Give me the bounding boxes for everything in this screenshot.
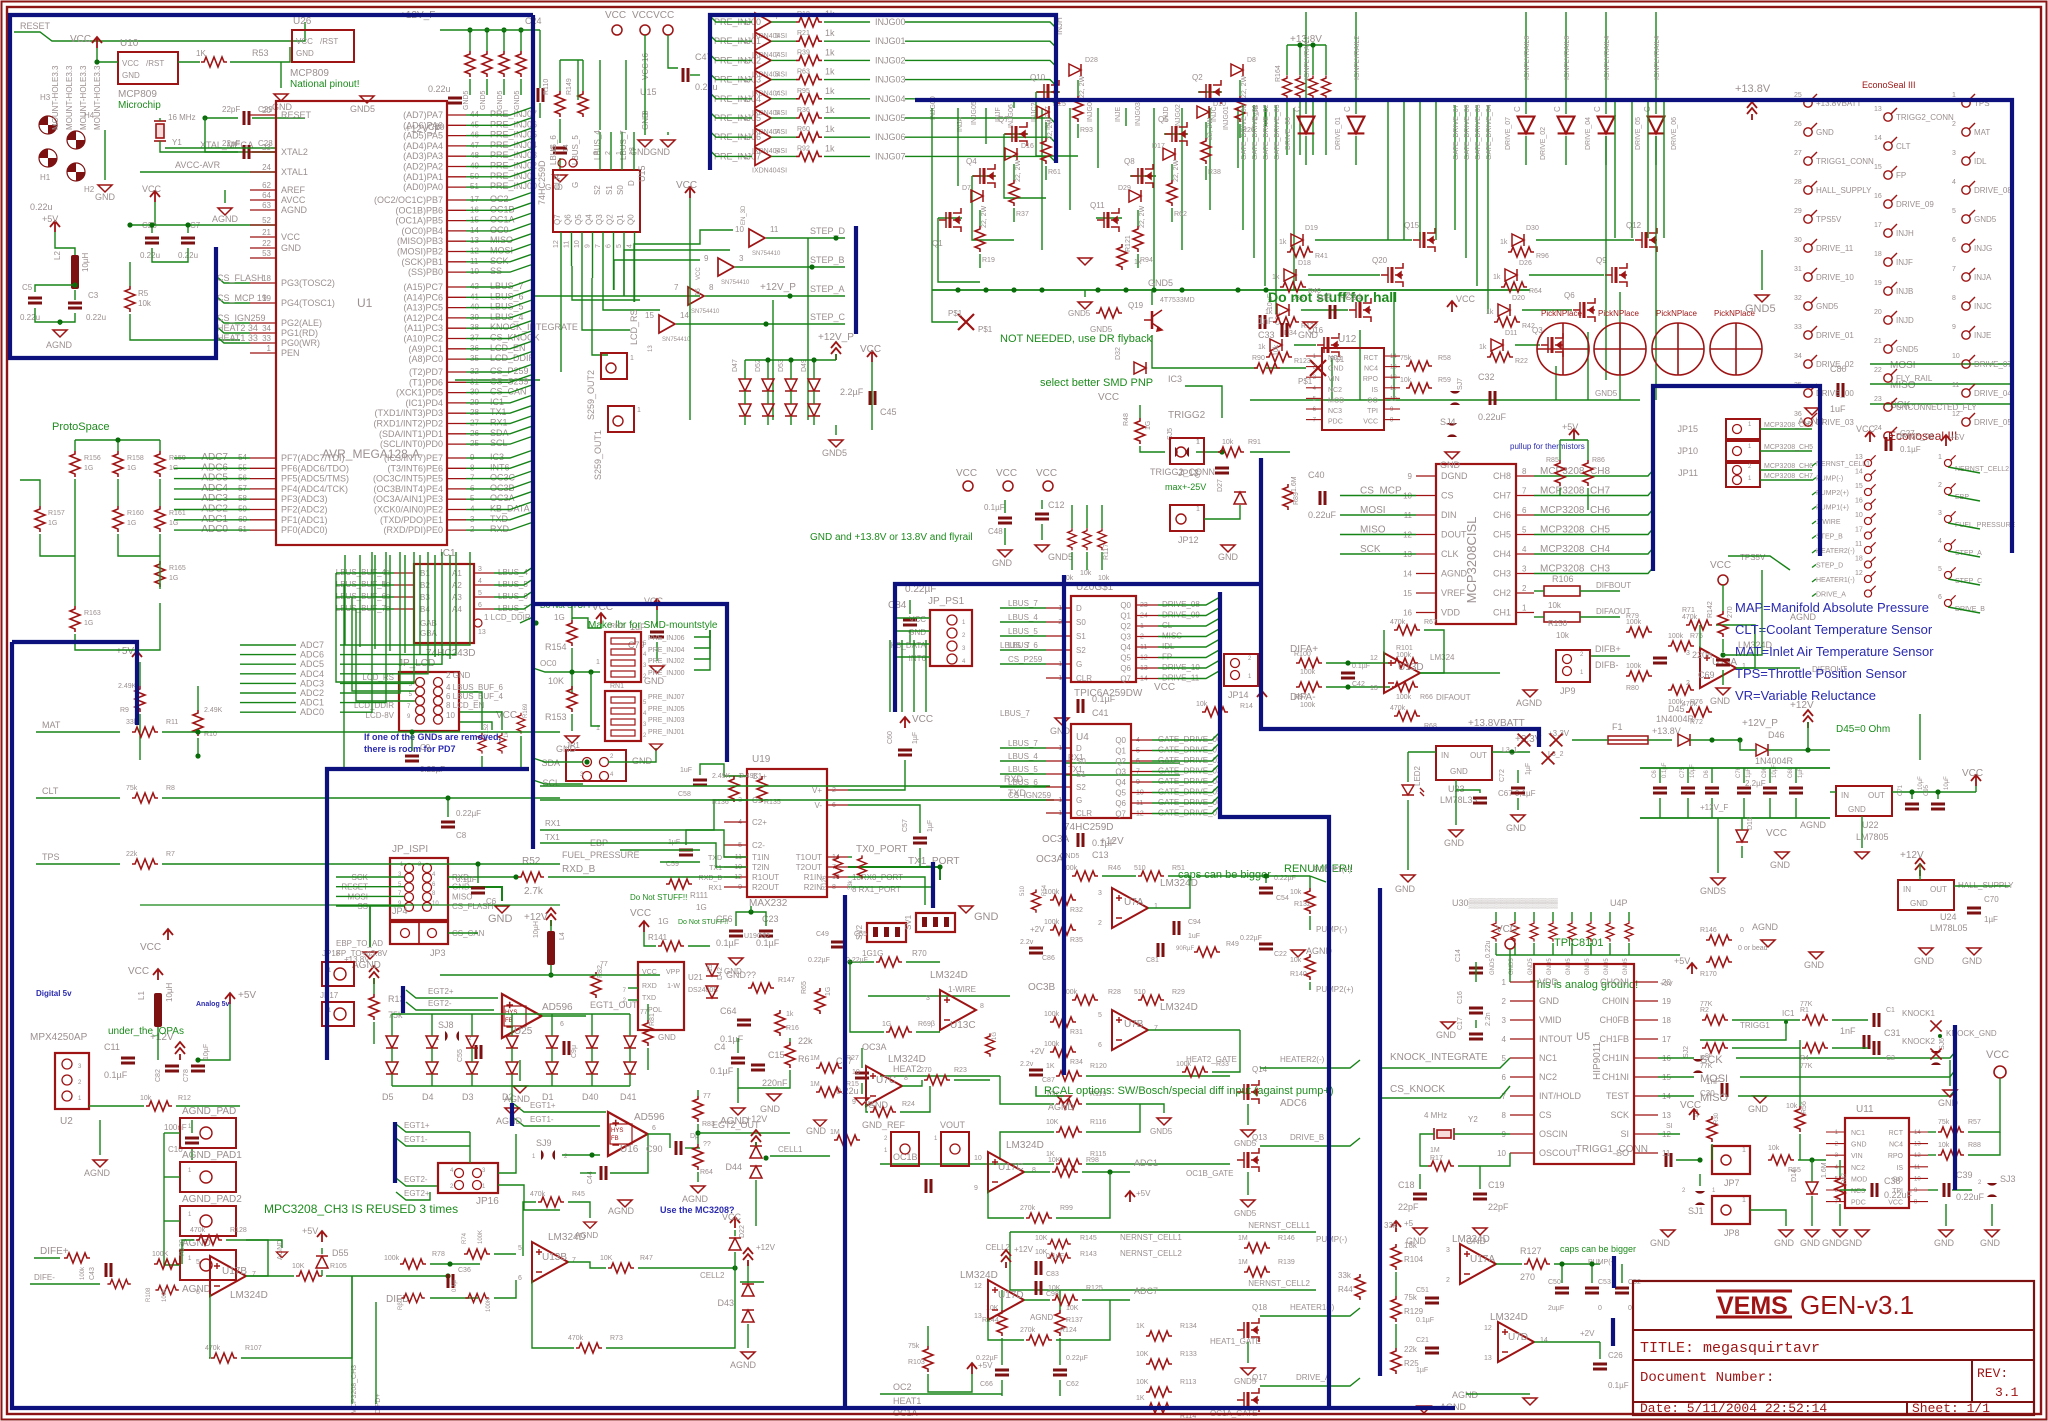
connector pin HEATER1(-) [1864, 571, 1875, 582]
svg-text:4: 4 [1938, 538, 1942, 545]
resistor R62 22,2W [1167, 180, 1177, 206]
JP3 connector [390, 922, 448, 944]
svg-text:13: 13 [1874, 106, 1882, 113]
svg-text:(OC0)PB4: (OC0)PB4 [401, 226, 443, 236]
svg-text:VCC: VCC [142, 184, 162, 194]
svg-text:U21: U21 [688, 973, 703, 982]
capacitor ref [926, 1179, 931, 1193]
resistor R168 [498, 733, 506, 754]
resistor R18 [796, 17, 822, 27]
svg-text:DGND: DGND [1441, 471, 1468, 481]
pin RX1 [447, 423, 466, 425]
svg-text:LM324D: LM324D [1490, 1312, 1528, 1323]
svg-text:13: 13 [1855, 454, 1863, 461]
svg-text:U5: U5 [1576, 1031, 1590, 1043]
svg-text:R73: R73 [610, 1335, 623, 1342]
svg-text:AD596: AD596 [634, 1112, 665, 1123]
svg-text:R16: R16 [786, 1025, 799, 1032]
agnd pump [1291, 950, 1305, 957]
capacitor C82 [165, 1066, 179, 1071]
connector pin STEP_D [1864, 557, 1875, 568]
capacitor C18 [1413, 1194, 1427, 1199]
svg-text:GND: GND [658, 1033, 676, 1042]
svg-text:1k: 1k [825, 124, 835, 134]
svg-text:0.22µF: 0.22µF [808, 957, 830, 964]
connector pin DRIVE_05 [1962, 413, 1975, 426]
svg-text:2: 2 [1580, 652, 1584, 658]
wires STEP_D/B/A/C [766, 237, 845, 239]
svg-text:100k: 100k [1044, 919, 1060, 926]
resistor R73 470k [576, 1343, 602, 1353]
svg-text:ADC7: ADC7 [1134, 1286, 1158, 1296]
svg-text:R121: R121 [1125, 235, 1132, 252]
resistor R149 [578, 91, 588, 117]
svg-text:3: 3 [593, 151, 600, 155]
bus tx ports [931, 862, 935, 908]
svg-text:VCC: VCC [996, 468, 1017, 479]
svg-text:OC3A: OC3A [1036, 854, 1064, 865]
svg-text:6: 6 [1502, 1073, 1507, 1082]
connector pin HEATER2(-) [1864, 542, 1875, 553]
wire to bus [466, 529, 470, 531]
resistor R139 1M [1244, 1267, 1270, 1277]
svg-text:SN754410: SN754410 [691, 309, 720, 315]
svg-text:4: 4 [1313, 386, 1317, 392]
svg-text:RX1: RX1 [545, 819, 561, 828]
svg-text:D11: D11 [1505, 330, 1517, 337]
svg-text:3: 3 [926, 995, 930, 1002]
gnd sj4 [1445, 452, 1459, 459]
svg-text:R8: R8 [166, 785, 175, 792]
svg-text:C57: C57 [902, 819, 909, 832]
vcc pins [640, 25, 650, 35]
opamp U17B [210, 1256, 246, 1296]
jumper SJ6 [1931, 1051, 1941, 1065]
resistor network RN1 [605, 691, 641, 741]
svg-text:T1IN: T1IN [752, 853, 770, 862]
svg-text:75k: 75k [1938, 1119, 1950, 1126]
svg-text:C11: C11 [104, 1042, 120, 1052]
svg-text:R15: R15 [846, 1081, 859, 1088]
svg-text:62: 62 [262, 181, 271, 190]
ADC U9 MCP3208CISL [1436, 464, 1516, 624]
resistors R136 R135 2.49K [729, 776, 739, 802]
mount hole H2 [67, 163, 85, 181]
MOSFET Q10 [1037, 80, 1059, 104]
wire rxd jp [448, 876, 516, 878]
svg-text:R86: R86 [1592, 457, 1605, 464]
svg-text:11: 11 [1855, 541, 1862, 548]
connector pin UNCONNECTED_FLY [1884, 398, 1897, 411]
MOSFET Q17 [1237, 1388, 1259, 1412]
resistor R134 1K [1146, 1331, 1172, 1341]
svg-text:AGND: AGND [1048, 1102, 1075, 1112]
resistor R2 77K [1702, 1015, 1728, 1025]
svg-text:13: 13 [1484, 1355, 1492, 1362]
svg-text:R89: R89 [1293, 492, 1300, 505]
svg-text:RCAL options: SW/Bosch/special: RCAL options: SW/Bosch/special diff inpu… [1044, 1085, 1334, 1097]
svg-text:2.2v: 2.2v [1020, 939, 1034, 946]
agnd c80 [1805, 408, 1819, 415]
svg-text:Do Not STUFF!!: Do Not STUFF!! [630, 893, 687, 902]
wires from U15 to drivers [560, 260, 562, 372]
resistor R99 270k [1026, 1213, 1052, 1223]
driver U18 SN754410 c [688, 287, 704, 305]
capacitor C1 [1874, 1013, 1879, 1027]
svg-text:C86: C86 [1042, 955, 1055, 962]
wire to bus [466, 402, 470, 404]
pin ADC5 [250, 478, 276, 480]
svg-text:GATE_DRIVE_04: GATE_DRIVE_04 [1486, 104, 1493, 160]
svg-text:1G: 1G [169, 575, 178, 582]
svg-text:HEATER2(-): HEATER2(-) [1280, 1055, 1325, 1064]
svg-text:15: 15 [707, 964, 714, 972]
resistor network RN2 [605, 632, 641, 682]
svg-text:OC3B: OC3B [1028, 982, 1056, 993]
MOSFET Q16 [1317, 333, 1339, 357]
diode D45 [1678, 734, 1690, 746]
svg-text:0.22uF: 0.22uF [1956, 1192, 1985, 1202]
svg-text:D: D [1076, 744, 1082, 753]
svg-text:1nF: 1nF [1316, 292, 1332, 302]
svg-text:Q10: Q10 [1030, 73, 1046, 82]
svg-text:GATE_DRIVE_00: GATE_DRIVE_00 [1241, 104, 1248, 160]
svg-text:R35: R35 [1070, 937, 1083, 944]
gnd5 below [829, 440, 843, 447]
driver U18 SN754410 b [718, 258, 734, 276]
diode D14 [1806, 1182, 1818, 1194]
svg-text:R153: R153 [545, 712, 567, 722]
pin MISO [447, 240, 466, 242]
svg-text:21: 21 [262, 228, 271, 237]
svg-text:3: 3 [643, 722, 647, 728]
svg-text:2.2n: 2.2n [1485, 1012, 1492, 1026]
diode D25 [1037, 106, 1049, 118]
svg-text:IS: IS [1371, 387, 1378, 394]
svg-text:GNDS: GNDS [1700, 886, 1726, 896]
svg-text:Y1: Y1 [172, 138, 182, 147]
svg-text:24: 24 [262, 163, 271, 172]
pin MOSI [447, 251, 466, 253]
svg-text:R37: R37 [1016, 211, 1029, 218]
svg-text:10k: 10k [1938, 1142, 1950, 1149]
svg-text:+12V: +12V [746, 1114, 767, 1124]
capacitor C44 [601, 1166, 606, 1180]
svg-text:GND: GND [1506, 823, 1527, 833]
svg-text:PEN: PEN [281, 348, 300, 358]
svg-text:AGND: AGND [212, 214, 239, 224]
gnd sv [959, 906, 973, 913]
resistor R46 [1072, 871, 1098, 881]
regulator U23 LM78L33 [1436, 746, 1492, 780]
resistor R61 22,2W [1041, 138, 1051, 164]
pin AREF [250, 189, 276, 191]
svg-text:R47: R47 [640, 1255, 653, 1262]
svg-text:+12V: +12V [1790, 700, 1814, 711]
svg-text:20: 20 [1662, 978, 1671, 987]
capacitor C78 [191, 1066, 205, 1071]
svg-text:C94: C94 [1188, 919, 1201, 926]
svg-text:C58: C58 [678, 791, 691, 798]
svg-text:15: 15 [1403, 589, 1412, 598]
svg-text:+5V: +5V [116, 646, 134, 657]
crystal Y1 [154, 121, 166, 141]
svg-text:D8: D8 [1247, 57, 1256, 64]
resistor R149b [107, 1280, 130, 1289]
connector pin DRIVE_03 [1804, 413, 1817, 426]
svg-text:TXD: TXD [490, 514, 509, 524]
bus trigg1 [1953, 1025, 1957, 1190]
svg-text:12: 12 [553, 240, 560, 248]
svg-text:22k: 22k [126, 851, 138, 858]
svg-text:DRIVE_00: DRIVE_00 [1285, 117, 1292, 150]
pin OC3B [447, 488, 466, 490]
connector pin FLY_RAIL [1884, 369, 1897, 382]
svg-text:C60: C60 [887, 731, 894, 744]
svg-text:5: 5 [775, 148, 779, 155]
svg-text:1: 1 [637, 407, 641, 414]
svg-text:V+: V+ [812, 786, 822, 795]
svg-text:U1: U1 [357, 296, 373, 310]
svg-text:D4: D4 [422, 1092, 434, 1102]
svg-text:G: G [1076, 796, 1082, 805]
svg-text:1k: 1k [825, 67, 835, 77]
svg-text:4: 4 [643, 652, 647, 658]
svg-text:1G: 1G [658, 917, 669, 926]
resistor R67 470k [1394, 625, 1420, 635]
svg-text:22: 22 [1874, 367, 1882, 374]
resistor R31 [1050, 1017, 1076, 1027]
capacitor C6 [471, 888, 485, 893]
svg-text:+5: +5 [1404, 1219, 1414, 1228]
svg-text:100k: 100k [1300, 702, 1316, 709]
svg-text:GND: GND [1770, 860, 1791, 870]
vcc circle u11 [1994, 1066, 2006, 1078]
svg-text:0.22u: 0.22u [428, 84, 451, 94]
svg-text:AGND: AGND [682, 1194, 709, 1204]
svg-text:S0: S0 [1076, 618, 1086, 627]
svg-text:6: 6 [1938, 594, 1942, 601]
svg-text:(SCL/INT0)PD0: (SCL/INT0)PD0 [380, 439, 443, 449]
svg-text:Q7: Q7 [1120, 675, 1131, 684]
svg-text:(IC1)PD4: (IC1)PD4 [405, 398, 443, 408]
svg-text:VCC: VCC [1036, 468, 1057, 479]
connector JP15 [1726, 419, 1760, 439]
svg-text:1: 1 [1748, 422, 1752, 428]
pin ADC4 [250, 488, 276, 490]
latch U4 74HC259D [1071, 724, 1131, 818]
pin PRE_INJ05 [447, 135, 466, 137]
svg-text:6: 6 [1522, 506, 1527, 515]
svg-text:GND: GND [1804, 960, 1825, 970]
svg-text:100k: 100k [1176, 1061, 1192, 1068]
svg-text:VCC: VCC [722, 1212, 742, 1222]
connector pin TRIGG1_CONN [1804, 152, 1817, 165]
svg-text:R134: R134 [1180, 1323, 1197, 1330]
bus tpic [1062, 575, 1066, 1075]
pin RXD [447, 529, 466, 531]
mount hole H1 [39, 149, 57, 167]
svg-text:R145: R145 [1080, 1235, 1097, 1242]
svg-text:C4: C4 [714, 1042, 726, 1052]
svg-text:U4P: U4P [1610, 898, 1628, 908]
pin PRE_INJ04 [447, 145, 466, 147]
svg-text:S2: S2 [1076, 783, 1086, 792]
svg-text:CELL1: CELL1 [778, 1145, 803, 1154]
svg-text:R129: R129 [1404, 1307, 1424, 1316]
svg-text:R140: R140 [1290, 971, 1307, 978]
opamp U13D LM324D [1384, 653, 1420, 693]
svg-text:Q5: Q5 [1158, 115, 1169, 124]
svg-text:U22: U22 [1862, 820, 1879, 830]
svg-text:SJ7: SJ7 [1457, 378, 1464, 390]
svg-text:1k: 1k [1265, 309, 1273, 316]
svg-text:19: 19 [1662, 997, 1671, 1006]
svg-text:6: 6 [652, 1125, 656, 1132]
pin GND [250, 247, 276, 249]
svg-text:NERNST_CELL2: NERNST_CELL2 [1120, 1249, 1182, 1258]
pin 52 [250, 224, 276, 226]
+5V arrow box [132, 651, 142, 662]
svg-text:VCC: VCC [128, 966, 149, 977]
wire lbus_buf rails [336, 573, 415, 682]
svg-text:C56: C56 [716, 914, 733, 924]
svg-text:1G: 1G [825, 987, 832, 996]
pin CH7 [1516, 495, 1534, 497]
svg-text:Analog 5v: Analog 5v [196, 1001, 230, 1008]
svg-text:0.22uF: 0.22uF [1308, 510, 1337, 520]
pin XTAL2 [250, 151, 276, 153]
svg-text:R51: R51 [1172, 865, 1185, 872]
svg-text:C5: C5 [22, 283, 33, 292]
svg-text:D3: D3 [462, 1092, 474, 1102]
pin INT6 [447, 467, 466, 469]
resistor R32 [1050, 895, 1076, 905]
resistor R132 10k [1305, 888, 1315, 914]
connector pin INJH [1884, 224, 1897, 237]
wire to bus [466, 371, 470, 373]
gnd below U26 [274, 94, 288, 101]
svg-text:U26: U26 [293, 16, 312, 27]
svg-text:LM324D: LM324D [230, 1290, 268, 1301]
resistor R26 1M [834, 1135, 860, 1145]
svg-text:GND5: GND5 [480, 90, 487, 110]
svg-text:1: 1 [1748, 476, 1752, 482]
svg-text:GATE_DRIVE_01: GATE_DRIVE_01 [1252, 104, 1259, 160]
svg-text:1k: 1k [825, 47, 835, 57]
resistor R59 [1406, 383, 1432, 393]
svg-text:1: 1 [884, 1148, 888, 1154]
connector JP12 [1170, 505, 1204, 531]
capacitor C35 [1215, 468, 1229, 473]
capacitor C27 [1886, 437, 1891, 451]
svg-text:10K: 10K [1136, 1351, 1149, 1358]
svg-text:1K: 1K [1136, 1323, 1145, 1330]
svg-text:+5V: +5V [1562, 422, 1578, 432]
svg-text:16 MHz: 16 MHz [168, 113, 196, 122]
wire to bus [466, 509, 470, 511]
svg-text:DRIVE_06: DRIVE_06 [1896, 432, 1934, 441]
svg-text:LBUS_6: LBUS_6 [1008, 778, 1038, 787]
wire to bus [466, 251, 470, 253]
svg-text:CH6: CH6 [1493, 510, 1511, 520]
capacitor C9 [405, 756, 419, 761]
svg-text:AREF: AREF [281, 185, 306, 195]
connector pin IDL [1962, 152, 1975, 165]
+5V arrow [50, 221, 60, 232]
+5V u17c [1125, 1191, 1135, 1202]
svg-text:1G: 1G [169, 520, 178, 527]
svg-text:5: 5 [616, 244, 623, 248]
svg-text:1M: 1M [1238, 1235, 1248, 1242]
diode D42 pair [706, 964, 718, 976]
resistor R37 22,2W [1009, 180, 1019, 206]
wire to bus [466, 166, 470, 168]
svg-text:U2: U2 [60, 1116, 73, 1127]
svg-text:VCC: VCC [1856, 424, 1876, 434]
svg-text:Q8: Q8 [1124, 157, 1135, 166]
wire difaout [1420, 672, 1500, 674]
svg-text:Q20: Q20 [1372, 256, 1388, 265]
gate feed diagonals [938, 218, 980, 282]
jumper SJ4 [1447, 423, 1457, 437]
resistor R21 [796, 36, 822, 46]
wires MCP3208_CHx [1760, 428, 1812, 430]
resistor R120 1K [1056, 1071, 1082, 1081]
svg-text:ADC1: ADC1 [1134, 1158, 1158, 1168]
svg-text:VDD: VDD [1441, 608, 1461, 618]
svg-text:FLY_RAIL: FLY_RAIL [1896, 374, 1933, 383]
opamp U17A [1460, 1244, 1496, 1284]
svg-text:10k: 10k [1556, 631, 1570, 640]
svg-text:1k: 1k [1493, 274, 1501, 281]
resistor R29 [1138, 995, 1164, 1005]
svg-text:D42: D42 [717, 967, 724, 980]
svg-text:14: 14 [1874, 135, 1882, 142]
svg-text:10k: 10k [1196, 701, 1208, 708]
svg-text:R5: R5 [138, 289, 149, 298]
svg-text:VCC: VCC [70, 34, 91, 45]
resistor R161 [155, 506, 165, 532]
resistor R111 [666, 879, 692, 889]
svg-text:DIFAOUT: DIFAOUT [1436, 693, 1471, 702]
svg-text:Q11: Q11 [1090, 201, 1105, 210]
svg-text:DRIVE_01: DRIVE_01 [1335, 117, 1342, 150]
svg-text:R160: R160 [127, 510, 144, 517]
svg-text:CLR: CLR [553, 174, 562, 190]
resistor R147 [748, 983, 774, 993]
capacitor C40 [1320, 491, 1325, 505]
svg-text:C84: C84 [888, 600, 907, 611]
svg-text:SN754410: SN754410 [662, 337, 691, 343]
svg-text:PDC: PDC [1328, 419, 1343, 426]
svg-text:C22: C22 [1274, 951, 1287, 958]
pin CH8 [1516, 475, 1534, 477]
svg-text:PRE_INJ02: PRE_INJ02 [648, 658, 685, 665]
svg-text:1G: 1G [554, 613, 565, 622]
mount hole H3 [39, 116, 57, 134]
wire to bus [466, 498, 470, 500]
svg-text:1N4004R: 1N4004R [1656, 714, 1695, 724]
svg-text:(AD3)PA3: (AD3)PA3 [403, 151, 443, 161]
svg-text:R139: R139 [1278, 1259, 1295, 1266]
vcc circle tpic [1505, 939, 1515, 949]
resistor R79 [1626, 627, 1652, 637]
1-wire U21 DS2480B [638, 962, 684, 1030]
svg-text:5: 5 [1098, 1012, 1102, 1019]
svg-text:20: 20 [1874, 309, 1882, 316]
svg-text:OC1B_GATE: OC1B_GATE [1186, 1169, 1233, 1178]
